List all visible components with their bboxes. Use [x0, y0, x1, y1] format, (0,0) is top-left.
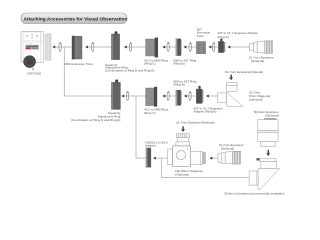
flip mirror diagonal [168, 134, 206, 167]
arrowhead squaring row2 [121, 95, 124, 98]
svg-text:(Ring C): (Ring C) [144, 111, 156, 115]
wire ring C row2 to ring B row2 [163, 95, 176, 97]
wire eyepiece to flip mirror [210, 157, 218, 159]
prism diagonal 31.7mm [218, 82, 243, 106]
rotation arrow 4 [167, 42, 170, 52]
rotation arrow 5 [189, 42, 192, 52]
arrowhead telescope [52, 46, 55, 49]
arrowhead ring B [184, 46, 187, 49]
wire branch down to 50.8 diagonal [161, 158, 248, 177]
telescope label strip [26, 45, 39, 49]
insert arrow into prism [229, 75, 233, 81]
svg-text:M84 Extension Tube: M84 Extension Tube [65, 62, 93, 66]
ring B row2 [176, 90, 182, 106]
rotation arrow 1 [59, 42, 62, 52]
wire prism diagonal to ring A row2 [206, 95, 217, 97]
label VSD60.2 to 50.8 adapter [145, 141, 168, 148]
rotation arrow row2-1 [126, 91, 129, 101]
svg-text:(Ring C): (Ring C) [144, 61, 156, 65]
rotation arrow 6 [212, 42, 215, 52]
insert arrow into 50.8 diagonal [266, 150, 270, 156]
label squaring ring row1 [105, 63, 154, 73]
svg-text:(Combination of Ring D and Rin: (Combination of Ring D and Ring E) [71, 118, 120, 122]
svg-text:(Optional): (Optional) [251, 59, 265, 63]
label ring C row1 [144, 59, 168, 66]
ring A row1 [218, 39, 225, 53]
arrowhead M84 [85, 46, 88, 49]
wire ring B row2 to ring A row2 [184, 95, 196, 97]
label prism diagonal [249, 90, 270, 101]
arrowhead ring C [162, 46, 165, 49]
42T extension tube [197, 42, 206, 54]
wire row1 telescope to M84 [53, 46, 72, 48]
svg-text:Adapter (Ring A): Adapter (Ring A) [194, 110, 217, 114]
label ring B row2 [174, 79, 197, 86]
wire vertical branch from row1 to row2 [64, 47, 111, 96]
wire ring B to 42T tube [184, 46, 197, 48]
svg-text:50.8mm Eyepieces(commercially: 50.8mm Eyepieces(commercially available) [225, 191, 285, 195]
svg-text:(Ring A): (Ring A) [218, 35, 229, 39]
VSD60.2 to 50.8 adapter [146, 148, 151, 168]
telescope rear flange plate [43, 34, 50, 60]
label 42T extension tube [197, 27, 211, 38]
squaring adjustment ring row1 [112, 31, 120, 59]
title banner [21, 13, 128, 24]
ring C row1 [146, 38, 158, 58]
ring B row1 [176, 39, 182, 56]
arrowhead ring A [228, 46, 231, 49]
label eyepiece 50.8mm [254, 110, 279, 117]
insert arrow into flip mirror top [181, 126, 185, 132]
svg-text:(Optional): (Optional) [175, 172, 189, 176]
svg-text:(Combination of Ring D and Rin: (Combination of Ring D and Ring E) [105, 69, 154, 73]
arrowhead squaring [124, 46, 127, 49]
squaring adjustment ring row2 [112, 80, 121, 110]
wire ring C to ring B row1 [163, 46, 176, 48]
wire M84 to squaring ring [86, 46, 112, 48]
rotation arrow 3 [129, 42, 132, 52]
svg-text:(Optional): (Optional) [221, 147, 235, 151]
eyepiece 31.7mm row1 [249, 41, 272, 53]
arrowhead ring B row2 [184, 95, 187, 98]
arrowhead flip mirror right [210, 157, 213, 160]
M84 extension tube [72, 36, 82, 60]
svg-text:31.7mm Eyepiece(Optional): 31.7mm Eyepiece(Optional) [176, 121, 214, 125]
wire vertical branch from row2 to row3 [136, 96, 146, 158]
wire squaring row2 to ring C row2 [122, 95, 146, 97]
label ring A row1 [218, 31, 259, 39]
rotation arrow 2 [92, 42, 95, 52]
svg-text:(Optional): (Optional) [265, 114, 279, 118]
rotation arrow row2-3 [189, 91, 192, 101]
rotation arrow row2-2 [167, 91, 170, 101]
eyepiece 50.8mm [258, 118, 278, 146]
label ring B row1 [173, 59, 196, 66]
svg-text:VSD70SS: VSD70SS [27, 72, 41, 76]
svg-text:(Optional): (Optional) [249, 98, 263, 102]
label flip mirror diagonal [175, 169, 202, 176]
diagonal 50.8mm [249, 158, 280, 189]
label eyepiece row1 [249, 56, 274, 64]
arrowhead prism to ring A [206, 95, 209, 98]
svg-text:Attaching Accessories for Visu: Attaching Accessories for Visual Observa… [24, 16, 128, 22]
wire adapter to flip mirror [153, 157, 167, 159]
label ring C row2 [144, 108, 168, 115]
svg-text:Tube: Tube [197, 34, 204, 38]
telescope VSD70SS body [21, 32, 44, 63]
arrowhead ring C row2 [162, 95, 165, 98]
svg-text:(Ring B): (Ring B) [173, 61, 184, 65]
wire ring A to eyepiece row1 [228, 46, 250, 48]
arrowhead 42T [209, 46, 212, 49]
ring A row2 [196, 86, 203, 104]
telescope focus knob [24, 56, 36, 71]
wire squaring to ring C row1 [124, 46, 145, 48]
svg-text:Adapter: Adapter [145, 144, 156, 148]
label eyepiece row3 [219, 143, 244, 150]
label ring A row2 [194, 106, 223, 113]
eyepiece 31.7mm row3 [218, 151, 241, 164]
arrowhead adapter [153, 157, 156, 160]
label squaring ring row2 [71, 111, 121, 122]
svg-text:(Ring B): (Ring B) [174, 83, 185, 87]
svg-text:31.7mm Eyepiece(Optional): 31.7mm Eyepiece(Optional) [225, 70, 263, 74]
wire 42T to ring A row1 [209, 46, 219, 48]
ring C row2 [146, 87, 158, 107]
